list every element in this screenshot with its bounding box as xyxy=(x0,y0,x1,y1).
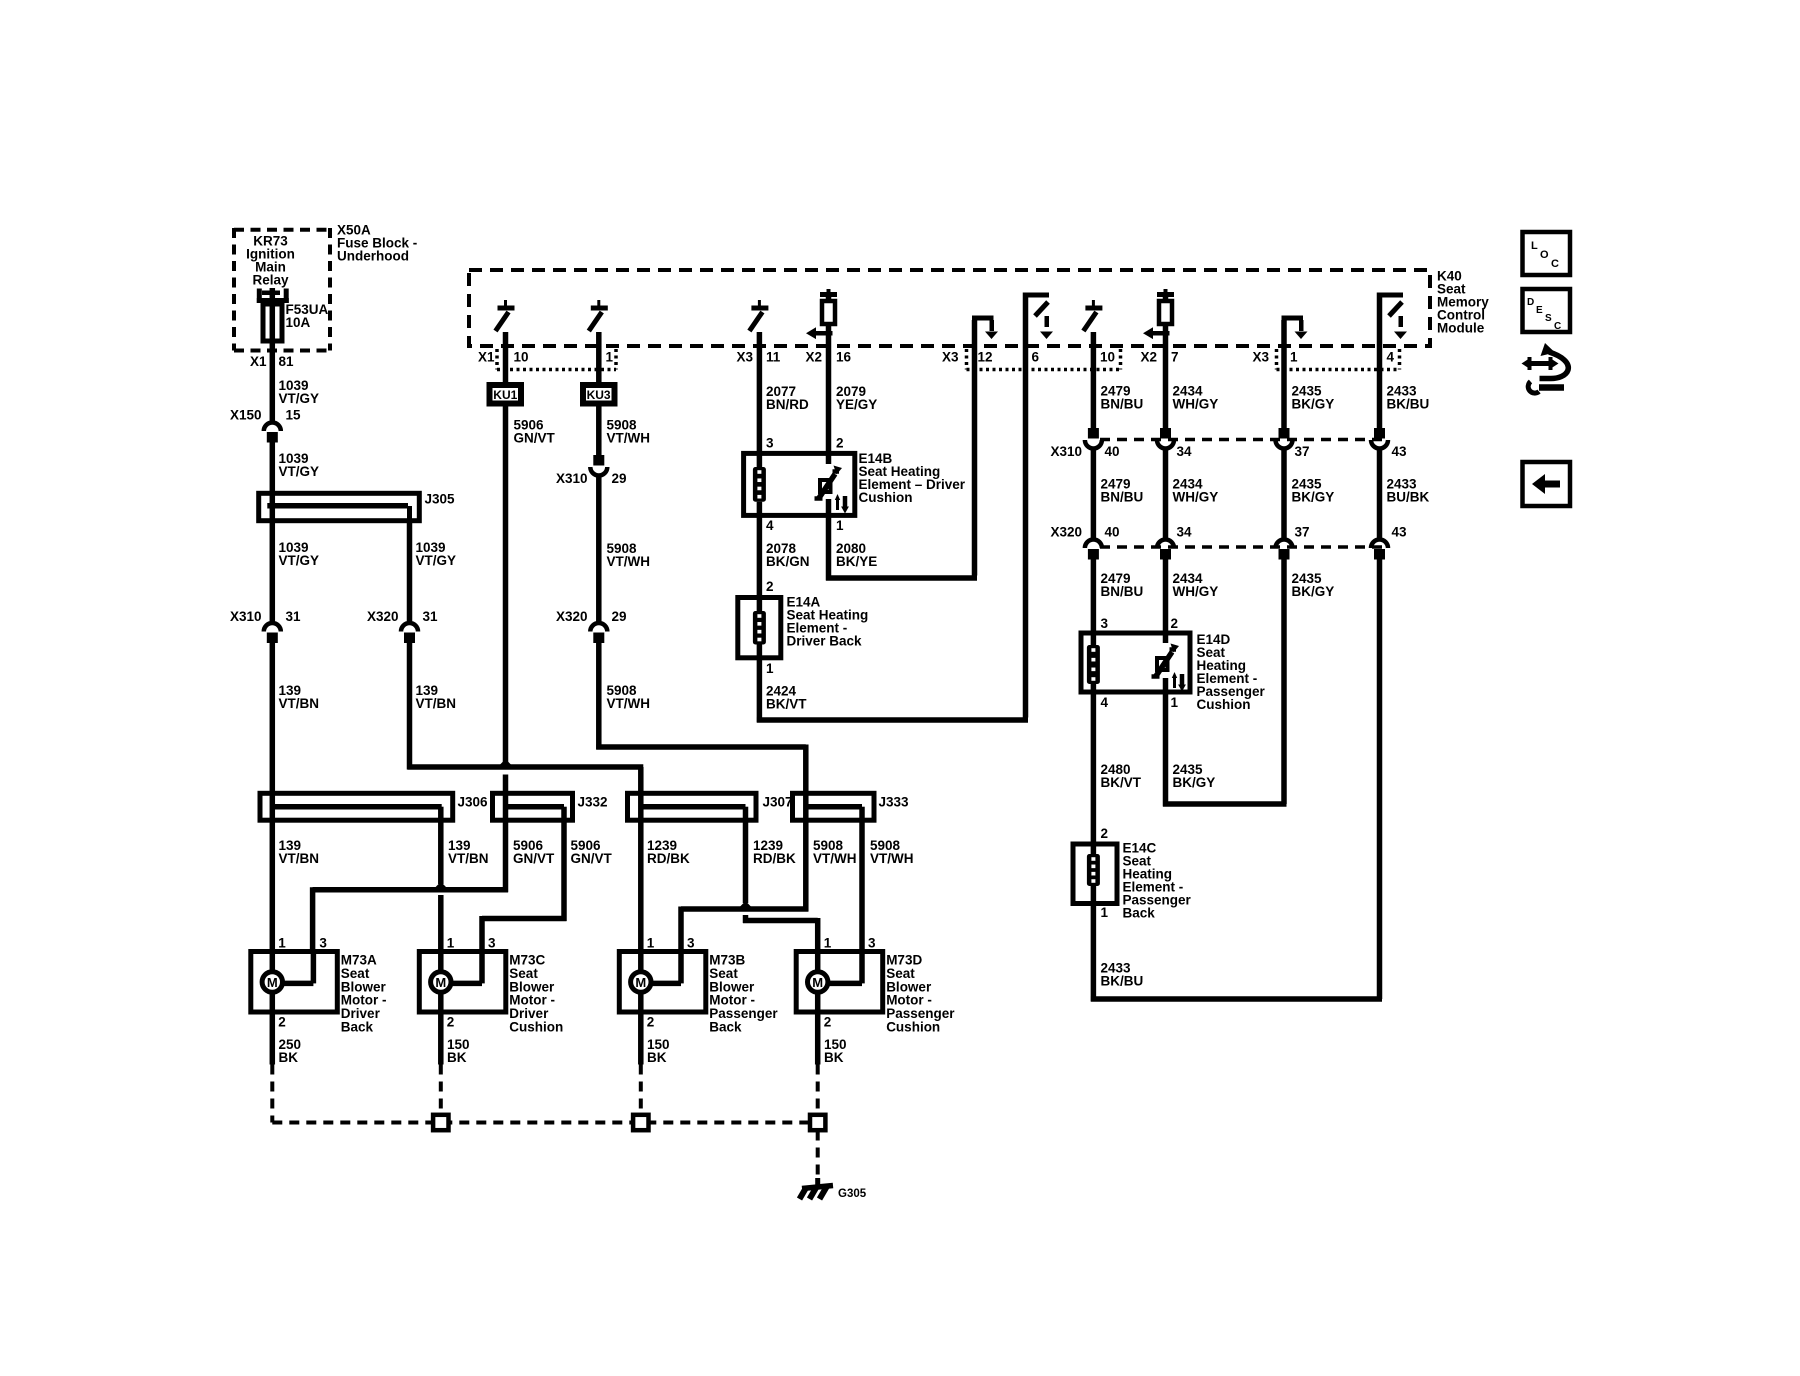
ground bus dashed horizontal xyxy=(272,1121,809,1125)
K40 switched input pin 6 xyxy=(1023,293,1053,347)
svg-text:BK/GY: BK/GY xyxy=(1292,397,1335,412)
pin 1 E14B xyxy=(836,518,844,533)
svg-text:Back: Back xyxy=(709,1020,742,1035)
svg-text:BU/BK: BU/BK xyxy=(1387,490,1430,505)
svg-text:3: 3 xyxy=(319,936,327,951)
svg-text:10: 10 xyxy=(1100,350,1115,365)
connector X1 dotted box xyxy=(497,349,616,370)
svg-text:43: 43 xyxy=(1392,525,1408,540)
svg-text:VT/WH: VT/WH xyxy=(870,851,914,866)
heater E14B Seat Heating Element Driver Cushion xyxy=(744,453,855,515)
svg-text:D: D xyxy=(1527,297,1534,308)
icon back arrow button xyxy=(1523,462,1571,506)
K40 switched input pin 4 xyxy=(1377,293,1407,347)
ground splice square M73C xyxy=(433,1115,448,1130)
svg-text:J307: J307 xyxy=(763,795,793,810)
svg-text:X310: X310 xyxy=(230,609,262,624)
wire 150 BK M73D pin2 xyxy=(818,1012,847,1065)
pin 4 E14B xyxy=(766,518,774,533)
svg-text:VT/GY: VT/GY xyxy=(279,464,320,479)
svg-text:X2: X2 xyxy=(1140,350,1157,365)
connector X310 pin 40 xyxy=(1050,428,1119,459)
K40 driver output pin X2-16 xyxy=(806,289,837,346)
svg-text:GN/VT: GN/VT xyxy=(571,851,613,866)
wire 2479 BN/BU pin10 to X310 xyxy=(1093,346,1143,428)
pin X1 10 xyxy=(478,350,529,365)
svg-text:RD/BK: RD/BK xyxy=(753,851,796,866)
svg-text:BN/BU: BN/BU xyxy=(1101,490,1144,505)
svg-text:BK/GY: BK/GY xyxy=(1173,775,1216,790)
wire 2434 WH/GY X320 to E14D xyxy=(1166,560,1219,634)
wire 2433 X320 down xyxy=(1377,560,1383,1000)
svg-text:VT/WH: VT/WH xyxy=(607,431,651,446)
svg-text:1: 1 xyxy=(647,936,655,951)
wire 5906 GN/VT J332 to M73A pin3 xyxy=(313,820,555,951)
heater E14D Seat Heating Element Passenger Cushion xyxy=(1081,633,1190,692)
svg-text:X2: X2 xyxy=(805,350,822,365)
connector X310 pin 34 xyxy=(1157,428,1192,459)
svg-text:11: 11 xyxy=(766,350,781,365)
pin X1 81 xyxy=(250,354,294,369)
svg-text:X320: X320 xyxy=(1050,525,1082,540)
wire 2077 BN/RD pin X3-11 to E14B xyxy=(759,346,809,453)
svg-text:Module: Module xyxy=(1437,321,1485,336)
wire 150 BK M73B pin2 xyxy=(641,1012,670,1065)
connector X310 pin 31 xyxy=(230,609,301,643)
splice J332 xyxy=(493,793,608,820)
pin 1 E14C xyxy=(1101,905,1109,920)
pin 3 E14B xyxy=(766,436,774,451)
connector X320 pin 40 xyxy=(1050,525,1119,560)
pin 2 E14A xyxy=(766,579,774,594)
svg-text:BK/GY: BK/GY xyxy=(1292,490,1335,505)
svg-text:X150: X150 xyxy=(230,408,262,423)
svg-text:2: 2 xyxy=(278,1015,286,1030)
svg-text:7: 7 xyxy=(1171,350,1179,365)
label X50A Fuse Block - Underhood xyxy=(337,223,417,264)
connector X3 dotted box left xyxy=(967,349,1121,370)
wire 2435 BK/GY E14D to X320 branch xyxy=(1163,692,1287,807)
svg-text:GN/VT: GN/VT xyxy=(514,431,556,446)
connector X320 pin 37 xyxy=(1276,525,1310,560)
svg-text:KU3: KU3 xyxy=(587,388,611,402)
svg-text:4: 4 xyxy=(1387,350,1395,365)
svg-text:BK/GN: BK/GN xyxy=(766,554,810,569)
splice J333 xyxy=(793,793,910,820)
svg-text:1: 1 xyxy=(766,661,774,676)
svg-text:2: 2 xyxy=(1101,826,1109,841)
wire 2079 YE/GY pin X2-16 to E14B xyxy=(829,346,878,453)
svg-text:BK/VT: BK/VT xyxy=(766,697,807,712)
svg-text:O: O xyxy=(1540,249,1549,261)
wire 5908 VT/WH KU3 upper xyxy=(599,407,650,456)
pin 2 E14B xyxy=(836,436,844,451)
svg-text:VT/BN: VT/BN xyxy=(279,851,320,866)
wire 1239 RD/BK J307 to M73D pin1 xyxy=(743,820,818,951)
pin 1 E14A xyxy=(766,661,774,676)
motor M73C Seat Blower Motor Driver Cushion xyxy=(419,936,563,1035)
wire 2479 BN/BU X320 to E14D xyxy=(1093,560,1143,634)
wire 5908 VT/WH X320 to J333 xyxy=(596,643,806,793)
component KU1 xyxy=(487,382,525,407)
K40 switch contact pin X3-11 xyxy=(749,300,768,346)
svg-text:BK/YE: BK/YE xyxy=(836,554,877,569)
wire 2480 BK/VT E14D to E14C xyxy=(1093,692,1141,844)
connector X320 pin 31 xyxy=(367,609,438,643)
ground splice square M73B xyxy=(633,1115,648,1130)
svg-text:M: M xyxy=(267,975,278,990)
heater E14C Seat Heating Element Passenger Back xyxy=(1073,844,1117,904)
pin X3 11 xyxy=(736,350,780,365)
ground bus dashed wire M73C xyxy=(439,1065,443,1115)
svg-text:81: 81 xyxy=(279,354,295,369)
svg-text:3: 3 xyxy=(687,936,695,951)
pin 4 E14D xyxy=(1101,695,1109,710)
ground splice square M73D xyxy=(810,1115,825,1130)
svg-text:34: 34 xyxy=(1177,444,1193,459)
motor M73B Seat Blower Motor Passenger Back xyxy=(619,936,778,1035)
motor M73D Seat Blower Motor Passenger Cushion xyxy=(796,936,955,1035)
K40 switch contact pin X1-10 xyxy=(496,300,515,346)
pin 2 E14D xyxy=(1171,616,1179,631)
motor M73A Seat Blower Motor Driver Back xyxy=(251,936,387,1035)
svg-text:1: 1 xyxy=(278,936,286,951)
connector X310 pin 37 xyxy=(1276,428,1310,459)
connector X310 row dashed line xyxy=(1100,438,1388,442)
svg-text:E: E xyxy=(1536,305,1543,316)
pin 2 E14C xyxy=(1101,826,1109,841)
connector X320 pin 29 xyxy=(556,609,627,643)
relay KR73 label xyxy=(246,234,295,288)
wire 1039 VT/GY fuse to X150 xyxy=(272,341,319,422)
module K40 dashed outline xyxy=(469,270,1430,346)
svg-text:BK: BK xyxy=(447,1050,467,1065)
svg-text:BK/BU: BK/BU xyxy=(1101,974,1144,989)
wire 2433 BK/BU pin 4 to X310 xyxy=(1380,346,1430,428)
svg-text:M: M xyxy=(635,975,646,990)
svg-text:J306: J306 xyxy=(458,795,489,810)
wire 139 VT/BN to J306 xyxy=(272,643,319,793)
svg-text:1: 1 xyxy=(447,936,455,951)
wire 2433 BU/BK X310-X320 xyxy=(1380,450,1430,539)
svg-text:40: 40 xyxy=(1105,525,1120,540)
svg-text:6: 6 xyxy=(1032,350,1040,365)
pin 1 (KU3) xyxy=(606,350,614,365)
svg-text:10A: 10A xyxy=(286,315,311,330)
svg-text:VT/GY: VT/GY xyxy=(279,391,320,406)
svg-text:10: 10 xyxy=(514,350,529,365)
svg-text:3: 3 xyxy=(1101,616,1109,631)
svg-text:S: S xyxy=(1545,313,1552,324)
svg-text:J305: J305 xyxy=(425,492,456,507)
ground dashed drop to G305 xyxy=(816,1131,820,1179)
wire 5906 GN/VT J332 to M73C pin3 xyxy=(482,820,613,951)
pin X2 7 xyxy=(1140,350,1178,365)
ground bus dashed wire M73B xyxy=(639,1065,643,1115)
svg-text:37: 37 xyxy=(1295,525,1310,540)
svg-text:L: L xyxy=(1531,240,1538,252)
K40 switch contact pin 1 xyxy=(589,300,608,346)
wire 1039 VT/GY X150 to J305 xyxy=(272,443,319,494)
pin 3 E14D xyxy=(1101,616,1109,631)
svg-text:BN/RD: BN/RD xyxy=(766,397,809,412)
svg-text:Cushion: Cushion xyxy=(886,1020,940,1035)
component KU3 xyxy=(580,382,618,407)
wire 1239 RD/BK J307 to M73B pin1 xyxy=(641,820,690,951)
icon LOC button xyxy=(1523,232,1571,275)
wire 2424 BK/VT E14A to K40 pin 6 xyxy=(757,346,1028,723)
wire 2078 BK/GN E14B to E14A xyxy=(759,515,809,597)
svg-text:KU1: KU1 xyxy=(493,388,517,402)
svg-text:1: 1 xyxy=(1290,350,1298,365)
svg-text:1: 1 xyxy=(1171,695,1179,710)
wire 5908 VT/WH J333 to M73B pin3 xyxy=(681,820,857,951)
svg-text:C: C xyxy=(1551,258,1559,270)
svg-text:4: 4 xyxy=(1101,695,1109,710)
relay KR73 contact symbol xyxy=(257,288,289,305)
K40 driver output pin X2-7 xyxy=(1143,289,1174,346)
svg-text:31: 31 xyxy=(423,609,439,624)
wire 5908 VT/WH J333 to M73D pin3 xyxy=(862,820,914,951)
svg-text:16: 16 xyxy=(836,350,852,365)
svg-text:X310: X310 xyxy=(1050,444,1082,459)
splice J306 xyxy=(260,793,488,820)
wire 139 VT/BN J306 to M73A pin1 xyxy=(272,820,319,951)
svg-text:40: 40 xyxy=(1105,444,1120,459)
svg-text:GN/VT: GN/VT xyxy=(513,851,555,866)
svg-text:37: 37 xyxy=(1295,444,1310,459)
ground bus dashed wire M73D xyxy=(816,1065,820,1115)
fuse block X50A dashed outline xyxy=(234,228,330,351)
svg-text:Back: Back xyxy=(1123,906,1156,921)
K40 input pin X3-12 xyxy=(972,316,998,347)
svg-text:Cushion: Cushion xyxy=(1197,697,1251,712)
splice J305 xyxy=(259,492,455,521)
pin 10 xyxy=(1100,350,1115,365)
icon DESC button xyxy=(1523,289,1571,332)
svg-text:X3: X3 xyxy=(736,350,753,365)
svg-text:Back: Back xyxy=(341,1020,374,1035)
hop arrow at 5908/1239 crossing xyxy=(736,901,756,911)
svg-text:31: 31 xyxy=(286,609,302,624)
svg-text:BN/BU: BN/BU xyxy=(1101,397,1144,412)
svg-text:M: M xyxy=(812,975,823,990)
svg-text:1: 1 xyxy=(836,518,844,533)
svg-text:BK/BU: BK/BU xyxy=(1387,397,1430,412)
svg-text:Relay: Relay xyxy=(252,273,289,288)
svg-text:1: 1 xyxy=(824,936,832,951)
label E14A xyxy=(787,595,869,649)
wire 1039 VT/GY J305 left leg xyxy=(272,493,319,622)
svg-text:Driver Back: Driver Back xyxy=(787,634,863,649)
connector X150 pin 15 xyxy=(230,408,301,443)
svg-text:C: C xyxy=(1554,321,1561,332)
wire 2433 BK/BU E14C to pin4 wire xyxy=(1091,904,1382,1002)
svg-text:2: 2 xyxy=(1171,616,1179,631)
wire 2434 WH/GY X310-X320 xyxy=(1166,450,1219,539)
svg-text:BK: BK xyxy=(279,1050,299,1065)
svg-text:3: 3 xyxy=(766,436,774,451)
ground G305 xyxy=(800,1178,867,1200)
wire 2435 BK/GY X310-X320 xyxy=(1284,450,1334,539)
svg-text:G305: G305 xyxy=(838,1188,867,1200)
svg-text:X310: X310 xyxy=(556,471,588,486)
svg-text:34: 34 xyxy=(1177,525,1193,540)
svg-text:M: M xyxy=(435,975,446,990)
wire pin1 to KU3 xyxy=(596,346,602,382)
svg-text:3: 3 xyxy=(488,936,496,951)
svg-text:VT/BN: VT/BN xyxy=(416,696,457,711)
svg-text:Underhood: Underhood xyxy=(337,249,409,264)
svg-text:X3: X3 xyxy=(942,350,959,365)
label E14D xyxy=(1197,632,1266,712)
fuse F53UA 10A xyxy=(263,302,329,343)
svg-text:VT/WH: VT/WH xyxy=(607,696,651,711)
svg-text:X320: X320 xyxy=(367,609,399,624)
wire 150 BK M73C pin2 xyxy=(441,1012,470,1065)
svg-text:X320: X320 xyxy=(556,609,588,624)
svg-text:12: 12 xyxy=(978,350,993,365)
hop arrow at 139/5906 crossing xyxy=(496,759,516,769)
svg-text:WH/GY: WH/GY xyxy=(1173,490,1219,505)
svg-text:Cushion: Cushion xyxy=(509,1020,563,1035)
svg-text:VT/BN: VT/BN xyxy=(279,696,320,711)
wire pin10 to KU1 xyxy=(503,346,509,382)
svg-text:J332: J332 xyxy=(578,795,608,810)
svg-text:BK/VT: BK/VT xyxy=(1101,775,1142,790)
svg-text:2: 2 xyxy=(447,1015,455,1030)
wire 139 VT/BN J306 to M73C pin1 xyxy=(441,820,489,951)
svg-text:YE/GY: YE/GY xyxy=(836,397,877,412)
wire 250 BK M73A pin2 xyxy=(272,1012,301,1065)
connector X310 pin 29 xyxy=(556,455,627,486)
svg-text:1: 1 xyxy=(1101,905,1109,920)
connector X3 dotted box right xyxy=(1277,349,1400,370)
pin 6 xyxy=(1032,350,1040,365)
pin X3 12 xyxy=(942,350,993,365)
svg-text:J333: J333 xyxy=(879,795,910,810)
svg-text:VT/WH: VT/WH xyxy=(607,554,651,569)
svg-text:3: 3 xyxy=(868,936,876,951)
ground bus dashed wire M73A xyxy=(270,1065,274,1123)
wire 2080 BK/YE E14B to K40 pin X3-12 xyxy=(826,346,977,581)
connector X310 pin 43 xyxy=(1371,428,1407,459)
wire 2435 BK/GY X320 down xyxy=(1284,560,1334,805)
wire 139 VT/BN X320 to J307 feed xyxy=(408,643,644,793)
svg-text:2: 2 xyxy=(836,436,844,451)
splice J307 xyxy=(628,793,793,820)
svg-text:Cushion: Cushion xyxy=(859,490,913,505)
svg-text:VT/BN: VT/BN xyxy=(448,851,489,866)
icon harness routing xyxy=(1522,343,1569,393)
svg-text:BK/GY: BK/GY xyxy=(1292,584,1335,599)
svg-text:WH/GY: WH/GY xyxy=(1173,584,1219,599)
label E14B xyxy=(859,451,966,505)
connector X320 pin 34 xyxy=(1157,525,1192,560)
svg-text:29: 29 xyxy=(612,471,627,486)
svg-text:VT/WH: VT/WH xyxy=(813,851,857,866)
connector X320 pin 43 xyxy=(1371,525,1407,560)
svg-text:BK: BK xyxy=(647,1050,667,1065)
svg-text:29: 29 xyxy=(612,609,627,624)
svg-text:VT/GY: VT/GY xyxy=(416,553,457,568)
pin 1 E14D xyxy=(1171,695,1179,710)
svg-text:WH/GY: WH/GY xyxy=(1173,397,1219,412)
wire 5906 GN/VT KU1 to J332 xyxy=(506,407,556,794)
svg-text:VT/GY: VT/GY xyxy=(279,553,320,568)
wire 5908 VT/WH mid xyxy=(599,477,650,623)
pin X2 16 xyxy=(805,350,851,365)
wire 2435 BK/GY pin X3-1 to X310 xyxy=(1284,346,1334,428)
svg-text:2: 2 xyxy=(766,579,774,594)
svg-text:BK: BK xyxy=(824,1050,844,1065)
svg-text:1: 1 xyxy=(606,350,614,365)
svg-text:4: 4 xyxy=(766,518,774,533)
svg-text:15: 15 xyxy=(286,408,302,423)
svg-text:BN/BU: BN/BU xyxy=(1101,584,1144,599)
hop arrow at 5906/139 crossing xyxy=(431,882,451,892)
pin X3 1 xyxy=(1252,350,1298,365)
label E14C xyxy=(1123,841,1192,921)
pin 4 xyxy=(1387,350,1395,365)
svg-text:2: 2 xyxy=(647,1015,655,1030)
svg-text:X1: X1 xyxy=(250,354,267,369)
wire 2479 BN/BU X310-X320 xyxy=(1093,450,1143,539)
svg-text:X1: X1 xyxy=(478,350,495,365)
heater E14A Seat Heating Element Driver Back xyxy=(738,598,781,658)
K40 switch contact pin 10 xyxy=(1083,300,1102,346)
wire 1039 VT/GY J305 right leg xyxy=(410,521,457,622)
svg-text:2: 2 xyxy=(824,1015,832,1030)
svg-text:43: 43 xyxy=(1392,444,1408,459)
svg-text:RD/BK: RD/BK xyxy=(647,851,690,866)
connector X320 row dashed line xyxy=(1100,545,1388,549)
K40 input pin X3-1 xyxy=(1282,316,1308,347)
wire 2434 WH/GY pin X2-7 to X310 xyxy=(1166,346,1219,428)
svg-text:X3: X3 xyxy=(1252,350,1269,365)
label K40 Seat Memory Control Module xyxy=(1437,269,1489,336)
